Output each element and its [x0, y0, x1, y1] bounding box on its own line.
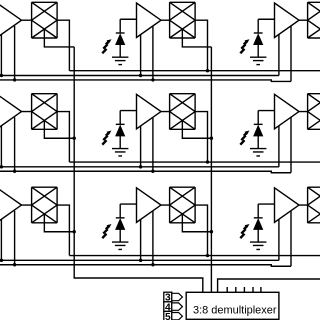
- amplifier A11: [0, 3, 22, 38]
- junction dot: [13, 170, 16, 173]
- wire A13 input2, terminates bus line3 jog: [290, 26, 292, 82]
- wire X31 bottom vertex to column select chain: [44, 214, 74, 232]
- column 2 select chain to demultiplexer: [210, 232, 212, 293]
- ground of D22: [112, 149, 128, 156]
- amplifier A23: [275, 94, 300, 129]
- junction dot: [0, 165, 3, 168]
- wire A31 output to X31 input: [22, 204, 32, 206]
- column 1 select chain segment: [73, 47, 75, 138]
- transceiver diode pair X21: [32, 94, 57, 130]
- transceiver diode pair X22: [170, 94, 196, 130]
- wire A21 input2 to bus line3: [14, 117, 16, 171]
- wire A13 input1, terminates bus line2: [278, 35, 280, 76]
- column 2 select chain segment: [210, 138, 212, 232]
- demultiplexer output stub pin 4: [252, 287, 254, 292]
- amplifier A12: [137, 3, 162, 38]
- row 1 bus line1: [69, 70, 320, 72]
- junction dot: [210, 137, 213, 140]
- wire A22 input1 to bus line2: [140, 126, 142, 167]
- junction dot: [0, 74, 3, 77]
- wire A31 input1 to bus line2: [0, 219, 2, 260]
- photon lightning arrow into photodiode D23: [240, 131, 249, 145]
- amplifier A31: [0, 188, 22, 223]
- ground of D33: [250, 242, 266, 249]
- wire X12 bottom vertex to column select chain: [182, 29, 211, 47]
- ground of D32: [112, 242, 128, 249]
- transceiver diode pair X32: [170, 187, 196, 223]
- demultiplexer output wire to right edge: [218, 279, 320, 292]
- svg-text:5: 5: [165, 312, 171, 320]
- photodiode D12: [116, 19, 137, 57]
- select input pin 3 box: [164, 292, 172, 302]
- wire A21 input1 to bus line2: [0, 126, 2, 167]
- transceiver diode pair X13: [308, 2, 320, 38]
- wire X21 bottom vertex to column select chain: [44, 120, 74, 138]
- junction dot: [206, 160, 209, 163]
- photodiode D32: [116, 204, 137, 242]
- wire X11 bottom vertex to column select chain: [44, 29, 74, 47]
- wire X21 right terminal to bus line1 start: [57, 112, 69, 163]
- photon lightning arrow into photodiode D12: [102, 39, 111, 53]
- junction dot: [13, 78, 16, 81]
- photon lightning arrow into photodiode D13: [240, 39, 249, 53]
- wire A11 input2 to bus line3: [14, 26, 16, 80]
- column 1 select chain to demultiplexer: [74, 232, 203, 293]
- transceiver diode pair X12: [170, 2, 196, 38]
- photodiode D33: [254, 204, 275, 242]
- wire A33 input1, terminates bus line2: [278, 219, 280, 260]
- junction dot: [210, 230, 213, 233]
- select input pin 4 connector flag: [172, 303, 183, 310]
- wire X12 right terminal to bus line1: [195, 20, 207, 70]
- wire A33 input2, terminates bus line3 jog: [290, 211, 292, 267]
- wire A13 output to X13 input: [299, 19, 308, 21]
- junction dot: [0, 259, 3, 262]
- wire A11 output to X11 input: [22, 19, 32, 21]
- wire X22 right terminal to bus line1: [195, 112, 207, 163]
- junction dot: [151, 78, 154, 81]
- wire X32 right terminal to bus line1: [195, 205, 207, 256]
- row 3 bus line2: [0, 259, 279, 261]
- row 2 bus line1: [69, 161, 320, 163]
- photon lightning arrow into photodiode D33: [240, 224, 249, 238]
- wire A12 input1 to bus line2: [140, 35, 142, 76]
- wire A32 input2 to bus line3: [152, 211, 154, 265]
- row 3 bus line3 with jog: [0, 265, 291, 267]
- amplifier A33: [275, 188, 300, 223]
- transceiver diode pair X31: [32, 187, 57, 223]
- amplifier A13: [275, 3, 300, 38]
- ground of D12: [112, 57, 128, 64]
- row 1 bus line3 with jog: [0, 80, 291, 82]
- wire A12 output to X12 input: [161, 19, 170, 21]
- select input pin 4 box: [164, 302, 172, 312]
- wire A11 input1 to bus line2: [0, 35, 2, 76]
- photodiode D23: [254, 111, 275, 149]
- photon lightning arrow into photodiode D32: [102, 224, 111, 238]
- photodiode D22: [116, 111, 137, 149]
- wire X32 bottom vertex to column select chain: [182, 214, 211, 232]
- ground of D23: [250, 149, 266, 156]
- demultiplexer U1 box: [186, 292, 279, 319]
- demultiplexer output stub pin 1: [226, 287, 228, 292]
- junction dot: [206, 254, 209, 257]
- wire A23 input1, terminates bus line2: [278, 126, 280, 167]
- amplifier A32: [137, 188, 162, 223]
- row 1 bus line2: [0, 75, 279, 77]
- column 1 select chain segment: [73, 138, 75, 232]
- junction dot: [73, 230, 76, 233]
- junction dot: [139, 74, 142, 77]
- wire A31 input2 to bus line3: [14, 211, 16, 265]
- select input pin 5 box: [164, 311, 172, 320]
- junction dot: [151, 170, 154, 173]
- wire A32 output to X32 input: [161, 204, 170, 206]
- demultiplexer output stub pin 3: [243, 287, 245, 292]
- wire A33 output to X33 input: [299, 204, 308, 206]
- row 3 bus line1: [69, 255, 320, 257]
- svg-text:3:8 demultiplexer: 3:8 demultiplexer: [193, 304, 277, 316]
- photon lightning arrow into photodiode D22: [102, 131, 111, 145]
- wire A32 input1 to bus line2: [140, 219, 142, 260]
- wire A12 input2 to bus line3: [152, 26, 154, 80]
- transceiver diode pair X11: [32, 2, 57, 38]
- wire A23 output to X23 input: [299, 111, 308, 113]
- amplifier A21: [0, 94, 22, 129]
- transceiver diode pair X23: [308, 94, 320, 130]
- wire X11 right terminal to bus line1 start: [57, 20, 69, 70]
- wire A23 input2, terminates bus line3 jog: [290, 117, 292, 173]
- row 2 bus line2: [0, 166, 279, 168]
- junction dot: [73, 137, 76, 140]
- junction dot: [206, 69, 209, 72]
- wire X31 right terminal to bus line1 start: [57, 205, 69, 256]
- demultiplexer output stub pin 2: [235, 287, 237, 292]
- photodiode D13: [254, 19, 275, 57]
- wire X22 bottom vertex to column select chain: [182, 120, 211, 138]
- select input pin 5 connector flag: [172, 313, 183, 320]
- wire A22 input2 to bus line3: [152, 117, 154, 171]
- junction dot: [139, 165, 142, 168]
- demultiplexer output stub pin 5: [260, 287, 262, 292]
- wire A22 output to X22 input: [161, 111, 170, 113]
- junction dot: [13, 263, 16, 266]
- row 2 bus line3 with jog: [0, 171, 291, 173]
- junction dot: [151, 263, 154, 266]
- amplifier A22: [137, 94, 162, 129]
- junction dot: [139, 259, 142, 262]
- wire A21 output to X21 input: [22, 111, 32, 113]
- select input pin 3 connector flag: [172, 293, 183, 300]
- transceiver diode pair X33: [308, 187, 320, 223]
- column 2 select chain segment: [210, 47, 212, 138]
- ground of D13: [250, 57, 266, 64]
